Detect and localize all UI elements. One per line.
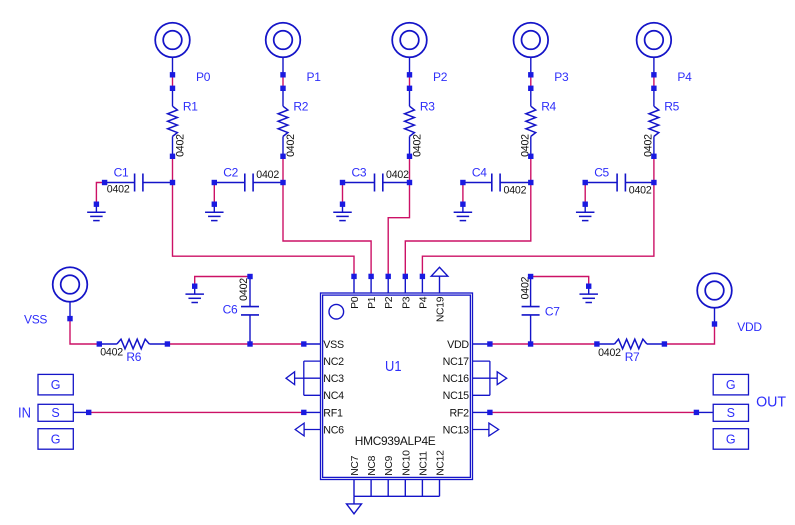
ground of C2 xyxy=(213,183,215,205)
node R7 right pin xyxy=(662,341,667,346)
node U1 top pin P2 xyxy=(387,276,389,293)
node P2 connector pin xyxy=(407,72,412,77)
wire net P0 to U1 pin P0 xyxy=(173,183,355,277)
wire R2 to C2 xyxy=(282,156,284,182)
arrow NC13 no-connect xyxy=(473,429,489,431)
U1 bottom pins NC7-NC12 bus xyxy=(353,480,355,497)
node C2 ground xyxy=(212,202,217,207)
svg-text:C1: C1 xyxy=(114,165,129,179)
svg-text:C2: C2 xyxy=(223,165,238,179)
node R2 bottom pin xyxy=(280,154,285,159)
node VSS connector pin xyxy=(67,316,72,321)
connector VDD xyxy=(697,273,732,308)
svg-text:NC10: NC10 xyxy=(401,450,412,476)
node IN S pad junction xyxy=(86,410,91,415)
svg-text:NC3: NC3 xyxy=(323,373,344,385)
node U1 VDD pin xyxy=(473,343,490,345)
wire R1 to C1 xyxy=(172,156,174,182)
wire C7 to ground xyxy=(531,277,589,287)
wire R7 to U1 VDD xyxy=(490,343,597,345)
svg-text:P0: P0 xyxy=(350,296,361,309)
pad IN G bottom xyxy=(38,429,73,450)
resistor R7 xyxy=(647,343,665,345)
node U1 pin P1 junction xyxy=(368,274,373,279)
node C4 right junction xyxy=(528,180,533,185)
node C7 top pin xyxy=(528,274,533,279)
svg-text:0402: 0402 xyxy=(629,185,652,197)
node C4 ground xyxy=(460,202,465,207)
connector VSS xyxy=(53,267,88,302)
svg-text:R1: R1 xyxy=(183,100,198,114)
node C6 bottom junction xyxy=(247,341,252,346)
node U1 pin P4 junction xyxy=(420,274,425,279)
node R6 right pin xyxy=(165,341,170,346)
svg-text:NC17: NC17 xyxy=(443,356,469,368)
svg-text:0402: 0402 xyxy=(519,276,531,299)
svg-text:NC11: NC11 xyxy=(418,451,429,476)
svg-text:RF2: RF2 xyxy=(450,407,470,419)
ground of C7 xyxy=(588,286,590,294)
capacitor C3 xyxy=(343,182,375,184)
svg-text:P4: P4 xyxy=(418,296,429,309)
arrow NC3 no-connect xyxy=(295,377,304,379)
wire P3 to R4 xyxy=(530,75,532,89)
node U1 VDD pin junction xyxy=(487,341,492,346)
svg-text:R5: R5 xyxy=(664,100,679,114)
svg-text:R6: R6 xyxy=(126,350,141,364)
svg-text:NC2: NC2 xyxy=(323,356,344,368)
svg-text:C5: C5 xyxy=(594,165,609,179)
node P1 connector pin xyxy=(280,72,285,77)
svg-text:P3: P3 xyxy=(401,296,412,309)
svg-text:OUT: OUT xyxy=(756,394,786,410)
resistor R3 xyxy=(409,88,411,106)
resistor R2 xyxy=(282,88,284,106)
node C1 left terminal xyxy=(102,180,107,185)
pad OUT G top xyxy=(713,374,748,395)
node R4 bottom pin xyxy=(528,154,533,159)
pad OUT S xyxy=(713,404,748,421)
svg-text:0402: 0402 xyxy=(100,347,123,359)
svg-text:NC16: NC16 xyxy=(443,373,469,385)
svg-text:NC7: NC7 xyxy=(350,455,361,475)
node C3 right junction xyxy=(407,180,412,185)
power arrow NC19 xyxy=(431,267,448,276)
wire R4 to C4 xyxy=(530,156,532,182)
node U1 VSS pin xyxy=(304,343,321,345)
svg-text:0402: 0402 xyxy=(256,169,279,181)
node U1 top pin P4 xyxy=(421,276,423,293)
ground of C3 xyxy=(342,183,344,205)
svg-text:0402: 0402 xyxy=(412,134,424,157)
wire P1 to R2 xyxy=(282,75,284,89)
svg-text:NC15: NC15 xyxy=(443,390,469,402)
svg-text:NC19: NC19 xyxy=(436,296,447,322)
svg-text:0402: 0402 xyxy=(598,347,621,359)
svg-text:0402: 0402 xyxy=(285,134,297,157)
op-amp U1 HMC939ALP4E body xyxy=(321,293,473,480)
wire IN to RF1 xyxy=(73,411,88,413)
node P4 connector pin xyxy=(651,72,656,77)
node C1 right junction xyxy=(170,180,175,185)
node C1 ground xyxy=(94,202,99,207)
ground below U1 xyxy=(353,496,355,504)
capacitor C4 xyxy=(463,182,492,184)
svg-text:P2: P2 xyxy=(384,296,395,309)
capacitor C1 xyxy=(105,182,135,184)
node R3 bottom pin xyxy=(407,154,412,159)
node R1 bottom pin xyxy=(170,154,175,159)
resistor R1 xyxy=(172,88,174,106)
svg-text:0402: 0402 xyxy=(520,134,532,157)
node C6 top pin xyxy=(247,274,252,279)
node U1 pin P3 junction xyxy=(403,274,408,279)
svg-text:NC9: NC9 xyxy=(384,455,395,475)
wire net P4 to U1 pin P4 xyxy=(422,183,654,277)
node U1 pin P0 junction xyxy=(351,274,356,279)
svg-text:G: G xyxy=(51,432,61,446)
wire NC17-NC15 bracket xyxy=(473,360,490,362)
resistor R4 xyxy=(530,88,532,106)
wire VSS to R6 xyxy=(70,319,99,344)
node R5 bottom pin xyxy=(651,154,656,159)
wire R6 to U1 VSS xyxy=(167,343,303,345)
pad OUT G bottom xyxy=(713,429,748,450)
svg-text:VSS: VSS xyxy=(323,339,344,351)
ground of C4 xyxy=(462,183,464,205)
wire P2 to R3 xyxy=(409,75,411,89)
svg-text:P1: P1 xyxy=(367,296,378,309)
svg-text:0402: 0402 xyxy=(504,185,527,197)
wire C6 to ground xyxy=(195,277,250,287)
svg-text:IN: IN xyxy=(18,404,31,421)
node P3 connector pin xyxy=(528,72,533,77)
wire RF2 to OUT xyxy=(473,411,490,413)
svg-text:0402: 0402 xyxy=(643,134,655,157)
wire R5 to C5 xyxy=(653,156,655,182)
svg-text:0402: 0402 xyxy=(175,134,187,157)
node R2 top pin xyxy=(280,86,285,91)
wire NC2-NC4 bracket xyxy=(304,360,321,362)
svg-text:S: S xyxy=(51,406,59,420)
svg-text:R7: R7 xyxy=(625,350,640,364)
svg-text:0402: 0402 xyxy=(238,278,250,301)
capacitor C2 xyxy=(214,182,245,184)
wire VDD to R7 xyxy=(664,324,714,344)
svg-text:VDD: VDD xyxy=(737,320,762,334)
connector P2 xyxy=(392,23,427,58)
node R4 top pin xyxy=(528,86,533,91)
pad IN S xyxy=(38,404,73,421)
svg-text:P4: P4 xyxy=(677,70,692,84)
ground of C1 xyxy=(96,183,104,205)
node R7 left pin xyxy=(594,341,599,346)
connector P1 xyxy=(266,23,301,58)
node U1 RF1 pin xyxy=(304,411,321,413)
node C5 left terminal xyxy=(583,180,588,185)
connector P0 xyxy=(155,23,190,58)
node C7 bottom junction xyxy=(528,341,533,346)
capacitor C5 xyxy=(585,182,617,184)
svg-text:NC8: NC8 xyxy=(367,455,378,475)
svg-text:HMC939ALP4E: HMC939ALP4E xyxy=(355,434,436,448)
U1 pin-1 marker circle xyxy=(329,304,344,319)
node OUT S pad junction xyxy=(694,410,699,415)
node U1 RF2 pin xyxy=(490,411,697,413)
node U1 top pin P0 xyxy=(353,276,355,293)
capacitor C6 xyxy=(249,315,251,344)
svg-text:VDD: VDD xyxy=(447,339,469,351)
node VDD connector pin xyxy=(712,321,717,326)
node C2 right junction xyxy=(280,180,285,185)
wire R3 to C3 xyxy=(409,156,411,182)
arrow NC6 no-connect xyxy=(304,429,320,431)
svg-text:R2: R2 xyxy=(293,100,308,114)
wire net P2 to U1 pin P2 xyxy=(388,183,409,277)
node U1 pin P2 junction xyxy=(386,274,391,279)
svg-text:NC12: NC12 xyxy=(436,450,447,476)
node R5 top pin xyxy=(651,86,656,91)
svg-text:P0: P0 xyxy=(196,70,211,84)
wire P0 to R1 xyxy=(172,75,174,89)
svg-text:R4: R4 xyxy=(541,100,556,114)
node C2 left terminal xyxy=(212,180,217,185)
node C6 ground xyxy=(192,284,197,289)
ground of C5 xyxy=(584,183,586,205)
pad IN G top xyxy=(38,374,73,395)
svg-text:P2: P2 xyxy=(433,70,448,84)
svg-text:NC4: NC4 xyxy=(323,390,344,402)
node R6 left pin xyxy=(97,341,102,346)
resistor R5 xyxy=(653,88,655,106)
node U1 RF2 pin junction xyxy=(487,410,492,415)
node C4 left terminal xyxy=(460,180,465,185)
svg-text:C7: C7 xyxy=(545,305,560,319)
wire net P3 to U1 pin P3 xyxy=(405,183,531,277)
capacitor C7 xyxy=(530,315,532,344)
node C3 ground xyxy=(340,202,345,207)
svg-text:NC13: NC13 xyxy=(443,424,469,436)
wire net P1 to U1 pin P1 xyxy=(283,183,371,277)
svg-text:G: G xyxy=(726,432,736,446)
node R1 top pin xyxy=(170,86,175,91)
svg-text:C6: C6 xyxy=(223,303,238,317)
node R3 top pin xyxy=(407,86,412,91)
connector P4 xyxy=(637,23,672,58)
svg-text:R3: R3 xyxy=(420,100,435,114)
node C5 ground xyxy=(583,202,588,207)
connector P3 xyxy=(514,23,549,58)
node U1 top pin P3 xyxy=(404,276,406,293)
node P0 connector pin xyxy=(170,72,175,77)
svg-text:RF1: RF1 xyxy=(323,407,343,419)
resistor R6 xyxy=(99,343,117,345)
arrow NC16 no-connect xyxy=(490,377,497,379)
svg-text:C4: C4 xyxy=(472,165,487,179)
node C5 right junction xyxy=(651,180,656,185)
svg-text:C3: C3 xyxy=(352,165,367,179)
svg-text:0402: 0402 xyxy=(107,184,130,196)
svg-text:G: G xyxy=(51,378,61,392)
node U1 top pin P1 xyxy=(370,276,372,293)
svg-text:NC6: NC6 xyxy=(323,424,344,436)
svg-text:S: S xyxy=(727,406,735,420)
svg-text:P1: P1 xyxy=(307,70,322,84)
svg-text:U1: U1 xyxy=(385,358,402,375)
node C7 ground xyxy=(586,284,591,289)
svg-text:VSS: VSS xyxy=(24,312,47,326)
node U1 VSS pin junction xyxy=(301,341,306,346)
wire P4 to R5 xyxy=(653,75,655,89)
svg-text:P3: P3 xyxy=(554,70,569,84)
ground of C6 xyxy=(194,286,196,294)
svg-text:0402: 0402 xyxy=(386,169,409,181)
node U1 RF1 pin junction xyxy=(301,410,306,415)
node C3 left terminal xyxy=(340,180,345,185)
svg-text:G: G xyxy=(726,378,736,392)
